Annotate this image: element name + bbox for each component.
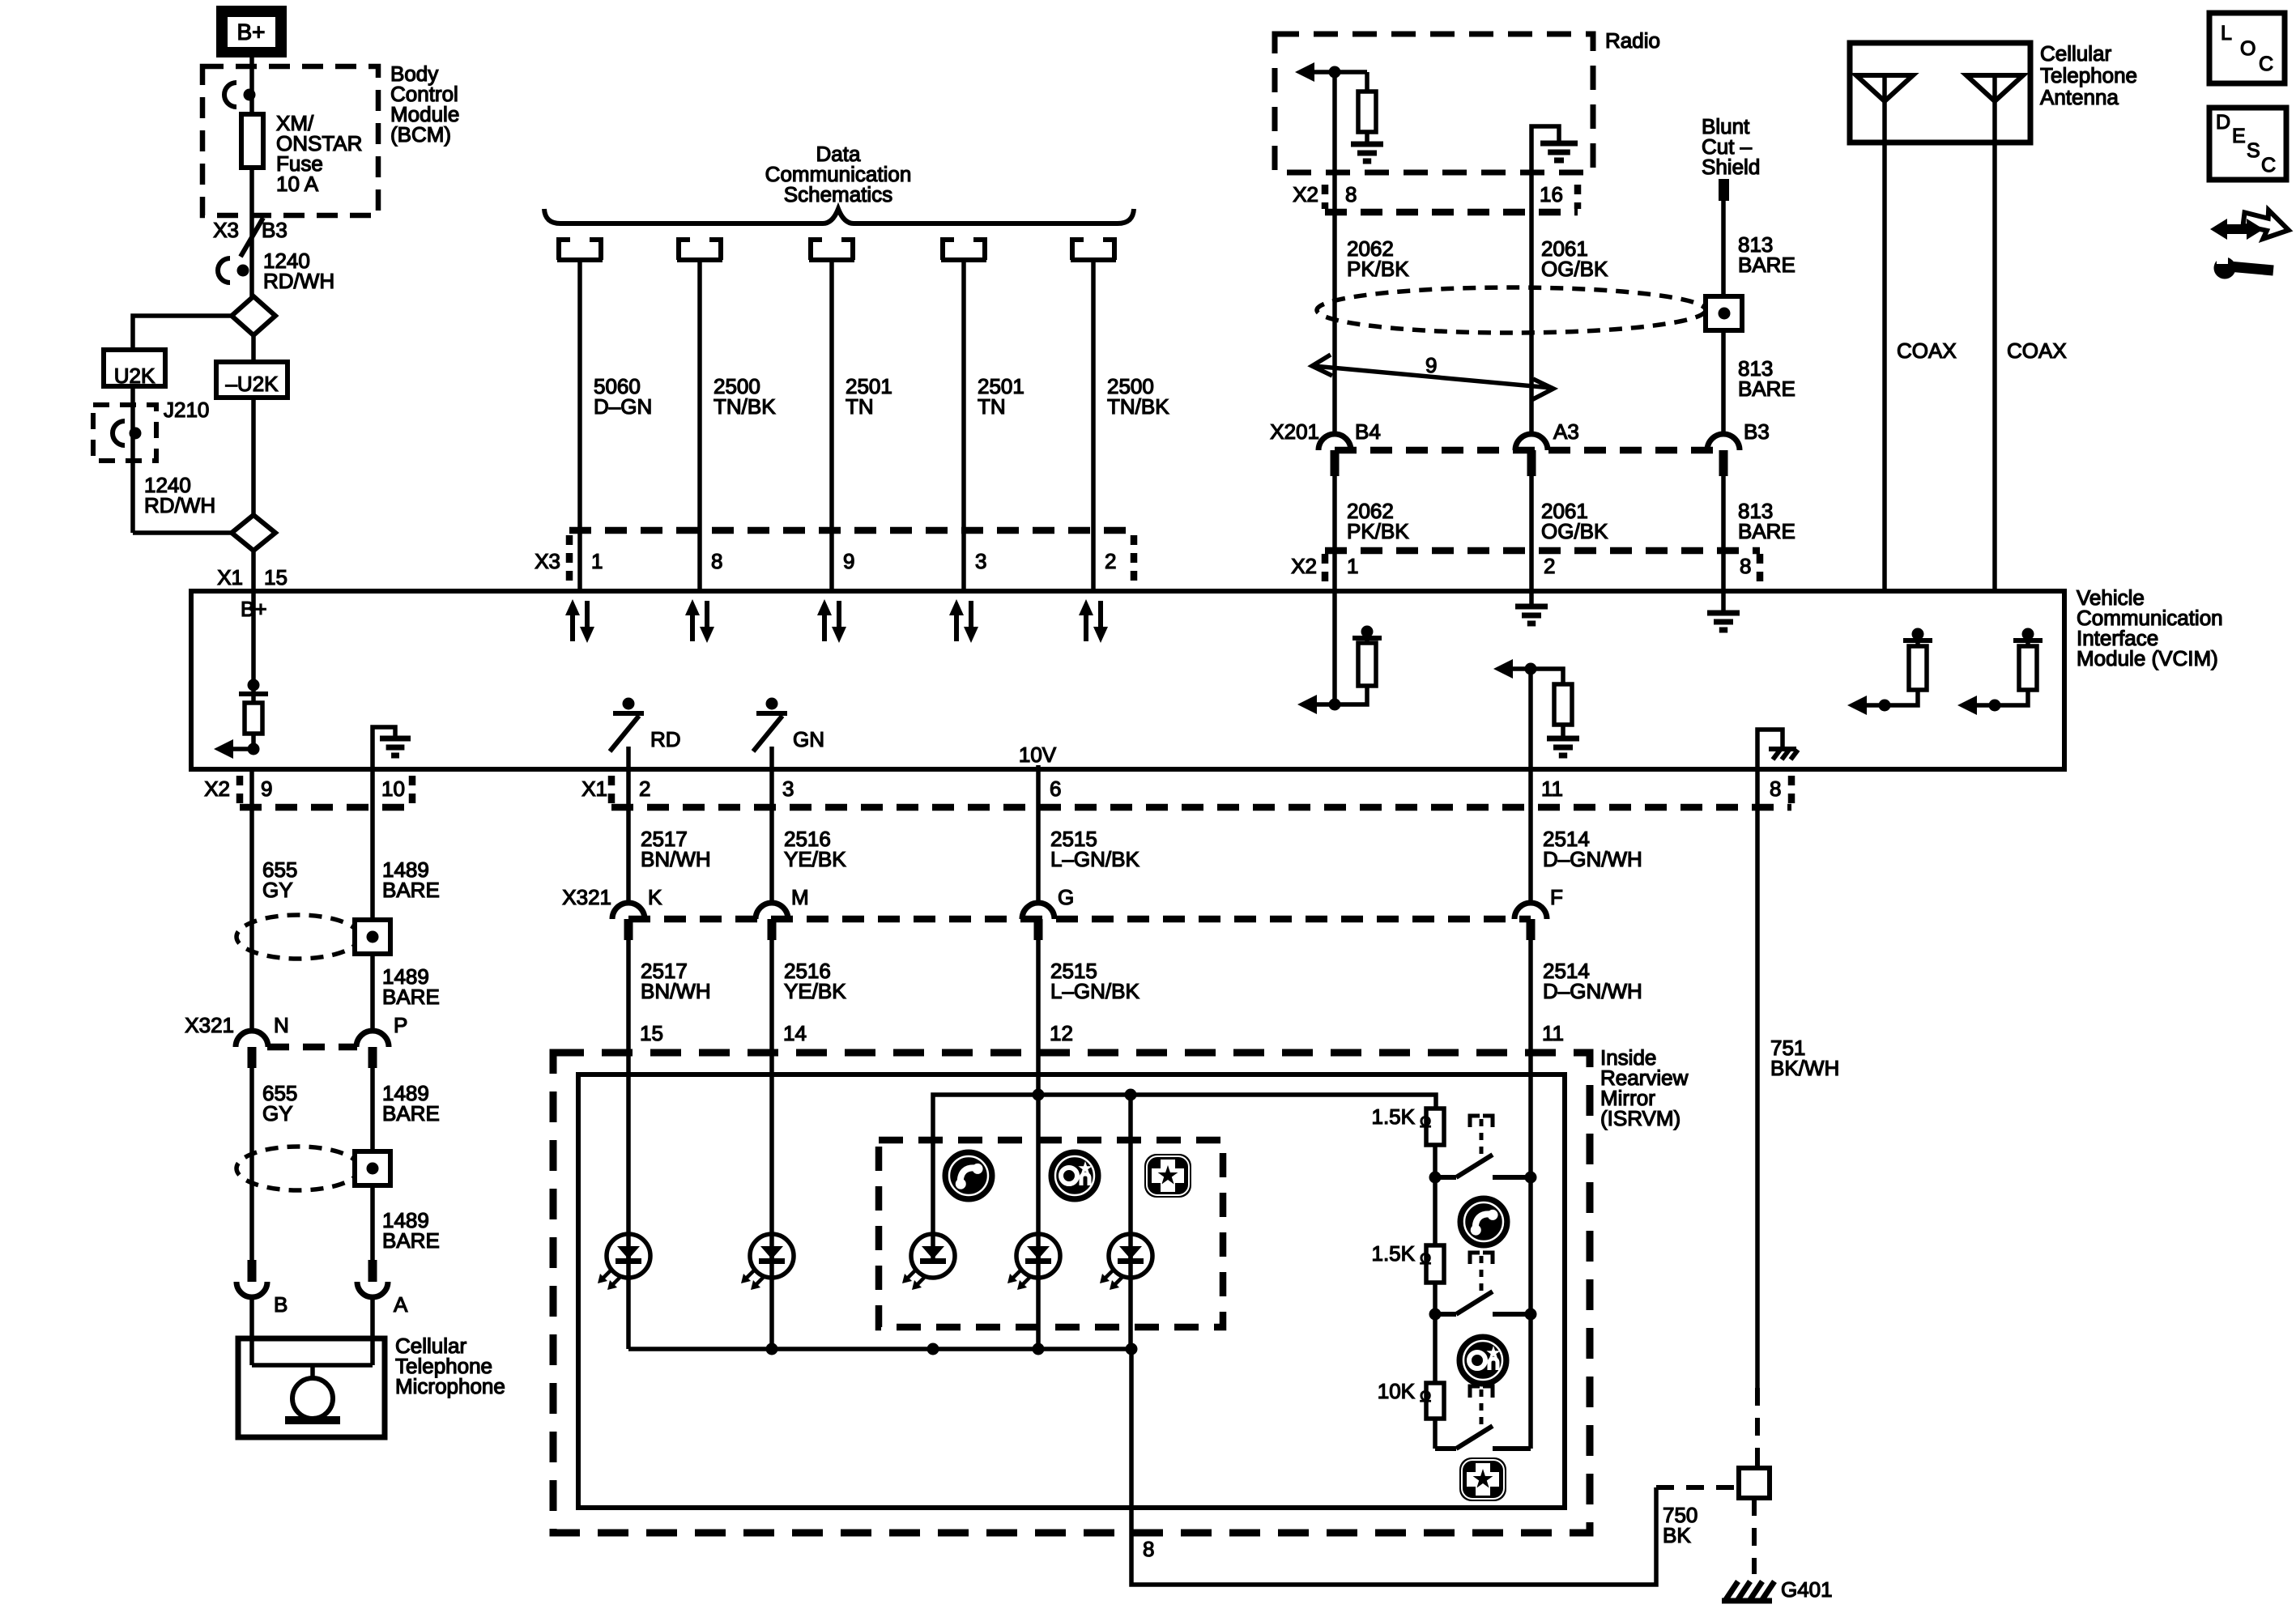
ISRVM buttons dashed box: [879, 1140, 1223, 1327]
svg-text:B: B: [274, 1292, 288, 1317]
svg-text:J210: J210: [164, 398, 209, 422]
svg-text:GN: GN: [793, 727, 824, 751]
bus junction dot emergency branch: [1125, 1089, 1137, 1101]
wire 813 BARE X201 to VCIM: [1721, 470, 1726, 591]
ISRVM LED common bus: [628, 1347, 1131, 1351]
svg-text:X3: X3: [535, 549, 560, 573]
shield termination square mic 1: [355, 920, 390, 954]
svg-text:P: P: [394, 1013, 407, 1037]
splice S1 diamond: [232, 296, 275, 335]
connector X2 bottom dashed line: [240, 804, 412, 811]
data link connector bracket 5: [1072, 237, 1084, 242]
BCM dashed box: [202, 66, 378, 215]
bidirectional serial data arrows 2: [690, 612, 695, 641]
wire circuit 2500 TN/BK: [1091, 260, 1096, 591]
emergency button icon column: [1459, 1457, 1506, 1501]
wire U2K to J210 to splice S2: [130, 386, 135, 533]
svg-text:BN/WH: BN/WH: [641, 979, 711, 1003]
LED indicator 5: [1109, 1234, 1152, 1278]
connector X201 dashed line: [1335, 447, 1723, 454]
G401 splice square: [1739, 1468, 1770, 1498]
svg-text:BARE: BARE: [1738, 253, 1795, 277]
svg-text:Ω: Ω: [1420, 1114, 1431, 1131]
shield ellipse radio: [1317, 287, 1706, 333]
svg-text:X1: X1: [581, 777, 607, 801]
LED indicator 2: [750, 1234, 794, 1278]
radio internal ground: [1351, 142, 1383, 147]
wire K inside ISRVM: [626, 1074, 631, 1349]
bus junction dot G: [1033, 1089, 1045, 1101]
VCIM internal termination X2-1: [1332, 591, 1337, 704]
svg-text:N: N: [274, 1013, 289, 1037]
svg-text:K: K: [648, 885, 662, 909]
svg-text:BARE: BARE: [1738, 519, 1795, 543]
wire splice S1 to -U2K: [251, 335, 256, 362]
wire splice S2 to VCIM pin X1-15: [251, 551, 256, 591]
data link connector bracket 4: [943, 237, 954, 242]
svg-text:G: G: [1058, 885, 1074, 909]
svg-text:2: 2: [1544, 554, 1555, 578]
svg-text:8: 8: [1740, 554, 1751, 578]
shield ellipse mic 1: [236, 915, 360, 959]
svg-text:D: D: [2216, 111, 2230, 134]
svg-text:M: M: [791, 885, 809, 909]
svg-text:–U2K: –U2K: [225, 372, 279, 396]
Radio dashed box: [1275, 34, 1593, 172]
svg-text:16: 16: [1540, 182, 1563, 206]
wire 2515 L–GN/BK VCIM to X321-G: [1036, 769, 1041, 903]
wire 813 BARE blunt cut to shield: [1721, 201, 1726, 296]
wire ladder segment 3: [1433, 1283, 1438, 1314]
svg-text:8: 8: [1345, 182, 1357, 206]
connector X321 terminal P: [356, 1031, 389, 1047]
svg-text:14: 14: [783, 1021, 807, 1045]
svg-text:X201: X201: [1270, 419, 1319, 444]
in-line connector X3/B3: [241, 218, 263, 257]
mic connector terminal A: [368, 1260, 377, 1282]
svg-text:X321: X321: [562, 885, 611, 909]
svg-text:B4: B4: [1355, 419, 1381, 444]
G401 chassis ground: [1722, 1581, 1774, 1601]
wire 750 BK dashed to G401 splice: [1656, 1485, 1739, 1490]
wire 2061 OG/BK X201 to VCIM: [1529, 470, 1534, 591]
junction dot ladder 2: [1429, 1308, 1442, 1321]
wire B+ to fuse: [249, 57, 254, 114]
svg-text:B3: B3: [262, 218, 288, 242]
splice S2 diamond: [232, 515, 275, 551]
fuse XM/ONSTAR 10A: [241, 114, 263, 168]
shield termination square mic 2: [355, 1151, 390, 1185]
connector X201 terminal B3: [1707, 434, 1740, 450]
VCIM internal 10V supply stub: [1036, 765, 1041, 769]
service info icon arrows and wrench: [2239, 205, 2292, 245]
svg-text:1: 1: [591, 549, 603, 573]
switch emergency: [1435, 1446, 1456, 1451]
svg-text:PK/BK: PK/BK: [1347, 519, 1409, 543]
svg-text:COAX: COAX: [1897, 338, 1957, 363]
svg-text:OG/BK: OG/BK: [1541, 519, 1608, 543]
ISRVM inner module box: [578, 1074, 1565, 1508]
wire emergency LED branch: [1128, 1095, 1133, 1349]
wire 751 BK/WH VCIM pin X1-8 to G401: [1755, 769, 1760, 1388]
radio internal resistor: [1365, 72, 1370, 91]
radio internal arrow out: [1314, 70, 1367, 74]
svg-text:OG/BK: OG/BK: [1541, 257, 1608, 281]
svg-text:2: 2: [1105, 549, 1116, 573]
emergency button icon: [1144, 1154, 1191, 1198]
svg-text:X1: X1: [217, 565, 243, 589]
antenna symbol 1: [1856, 75, 1913, 101]
wire 2516 YE/BK X321 to ISRVM pin 14: [769, 938, 774, 1074]
mic connector terminal B: [248, 1260, 257, 1282]
shield ellipse mic 2: [236, 1147, 360, 1190]
connector X2 radio dashed line: [1325, 209, 1578, 216]
wire 2061 OG/BK radio to X201: [1529, 212, 1534, 434]
svg-text:BK/WH: BK/WH: [1770, 1056, 1839, 1080]
svg-text:BARE: BARE: [382, 985, 440, 1009]
svg-text:YE/BK: YE/BK: [784, 979, 846, 1003]
svg-text:2: 2: [639, 777, 650, 801]
wire ladder segment 1: [1433, 1145, 1438, 1177]
data link connector bracket 3: [811, 237, 822, 242]
svg-text:10 A: 10 A: [276, 172, 319, 196]
svg-text:GY: GY: [262, 1101, 293, 1126]
phone button icon column: [1459, 1198, 1508, 1246]
svg-text:9: 9: [261, 777, 272, 801]
svg-text:D–GN/WH: D–GN/WH: [1543, 847, 1642, 871]
svg-text:A: A: [394, 1292, 408, 1317]
VCIM internal coax termination 1: [1879, 700, 1891, 712]
-U2K DTC box: [216, 362, 288, 398]
svg-text:12: 12: [1050, 1021, 1073, 1045]
wire circuit 2501 TN: [829, 260, 834, 591]
switch OnStar: [1435, 1312, 1456, 1317]
wire circuit 2500 TN/BK: [697, 260, 702, 591]
wire 2516 YE/BK VCIM to X321-M: [769, 769, 774, 903]
connector X321 terminal M: [756, 903, 788, 919]
svg-text:9: 9: [843, 549, 854, 573]
svg-text:A3: A3: [1553, 419, 1579, 444]
svg-text:3: 3: [782, 777, 794, 801]
blunt cut terminal: [1719, 179, 1729, 201]
switch phone actuator link: [1470, 1116, 1480, 1127]
VCIM internal termination pin X1-11: [1528, 669, 1533, 769]
svg-text:L–GN/BK: L–GN/BK: [1050, 979, 1139, 1003]
connector X3 dashed line: [569, 527, 1134, 534]
svg-text:G401: G401: [1781, 1577, 1833, 1602]
svg-text:D–GN: D–GN: [594, 394, 652, 419]
VCIM internal chassis ground pin X1-8: [1757, 730, 1783, 769]
phone button icon: [944, 1151, 993, 1200]
svg-text:15: 15: [264, 565, 288, 589]
svg-text:X3: X3: [213, 218, 239, 242]
svg-text:F: F: [1550, 885, 1563, 909]
svg-text:BK: BK: [1663, 1523, 1691, 1547]
connector X201 terminal A3: [1515, 434, 1548, 450]
data link connector bracket 1: [559, 237, 570, 242]
wire circuit 2501 TN: [961, 260, 966, 591]
wire fuse to X3-B3: [249, 168, 254, 298]
connector X201 terminal B4: [1318, 434, 1351, 450]
power feed B+ box: [216, 6, 287, 57]
bidirectional serial data arrows 4: [954, 612, 959, 641]
wire dashed splice to G401 ground: [1752, 1498, 1757, 1574]
wire G inside ISRVM: [1036, 1074, 1041, 1349]
wire ladder segment 5: [1433, 1419, 1438, 1449]
svg-text:U2K: U2K: [114, 364, 155, 388]
svg-text:S: S: [2247, 139, 2260, 162]
wire 1489 BARE shield to X321-P: [370, 954, 375, 1032]
wire 2515 L–GN/BK X321 to ISRVM pin 12: [1036, 938, 1041, 1074]
svg-text:TN: TN: [846, 394, 874, 419]
junction dot radio: [1329, 66, 1341, 79]
svg-text:Ω: Ω: [1420, 1389, 1431, 1406]
svg-text:8: 8: [711, 549, 722, 573]
LED indicator 3: [911, 1234, 955, 1278]
svg-text:Microphone: Microphone: [395, 1374, 505, 1398]
wire 1489 BARE shield to mic: [370, 1185, 375, 1260]
wire terminal A to mic box: [370, 1297, 375, 1338]
svg-text:L: L: [2221, 22, 2232, 45]
OnStar button icon column: [1459, 1336, 1507, 1385]
svg-text:BARE: BARE: [382, 1101, 440, 1126]
svg-text:BN/WH: BN/WH: [641, 847, 711, 871]
svg-text:X2: X2: [1293, 182, 1318, 206]
connector X321 terminal G: [1022, 903, 1054, 919]
svg-text:C: C: [2261, 154, 2276, 177]
VCIM module box: [191, 591, 2064, 769]
VCIM internal switch GN: [766, 698, 778, 710]
twisted pair arrow 9: [1314, 366, 1552, 388]
svg-text:10K: 10K: [1378, 1379, 1416, 1403]
ISRVM dashed box: [553, 1053, 1590, 1533]
switch phone: [1435, 1175, 1456, 1180]
svg-text:TN: TN: [978, 394, 1006, 419]
wire 2062 PK/BK X201 to VCIM: [1332, 470, 1337, 591]
resistor 1.5K second: [1426, 1245, 1444, 1283]
svg-text:RD: RD: [650, 727, 681, 751]
U2K DTC box: [104, 350, 165, 386]
bidirectional serial data arrows 3: [822, 612, 827, 641]
svg-text:B+: B+: [236, 19, 265, 45]
svg-text:11: 11: [1542, 1021, 1564, 1045]
svg-text:PK/BK: PK/BK: [1347, 257, 1409, 281]
svg-text:TN/BK: TN/BK: [1107, 394, 1169, 419]
svg-text:GY: GY: [262, 878, 293, 902]
svg-text:Ω: Ω: [1420, 1251, 1431, 1268]
svg-text:X2: X2: [204, 777, 230, 801]
bidirectional serial data arrows 1: [570, 612, 575, 641]
svg-text:8: 8: [1770, 777, 1781, 801]
svg-text:15: 15: [640, 1021, 663, 1045]
antenna symbol 2: [1966, 75, 2023, 101]
svg-text:10V: 10V: [1019, 743, 1057, 767]
wire 2514 D–GN/WH VCIM to X321-F: [1528, 769, 1533, 903]
VCIM internal ground pin X2-8: [1721, 591, 1726, 612]
data link connector bracket 2: [679, 237, 690, 242]
svg-text:L–GN/BK: L–GN/BK: [1050, 847, 1139, 871]
shield termination square radio: [1706, 296, 1742, 330]
connector X321 terminal K: [612, 903, 645, 919]
connector stub inside BCM: [224, 83, 236, 107]
VCIM internal ground pin X2-10: [373, 727, 395, 769]
LOC reference box: [2209, 13, 2285, 83]
J210 connector dashed box: [93, 405, 156, 461]
LED indicator 4: [1016, 1234, 1060, 1278]
VCIM internal B+ termination: [251, 591, 256, 749]
wire M inside ISRVM: [769, 1074, 774, 1349]
radio internal ground 2: [1540, 141, 1578, 147]
svg-text:6: 6: [1050, 777, 1061, 801]
wire 813 BARE shield to X201: [1721, 330, 1726, 434]
svg-text:YE/BK: YE/BK: [784, 847, 846, 871]
connector X321 terminal N: [236, 1031, 268, 1047]
connector X321 upper dashed line: [267, 1044, 357, 1051]
VCIM internal coax termination 2: [1989, 700, 2001, 712]
svg-text:Radio: Radio: [1605, 28, 1660, 53]
svg-text:3: 3: [975, 549, 986, 573]
svg-text:10: 10: [381, 777, 405, 801]
LED indicator 1: [607, 1234, 650, 1278]
svg-text:RD/WH: RD/WH: [263, 269, 334, 293]
svg-text:TN/BK: TN/BK: [714, 394, 776, 419]
VCIM internal ground pin X2-2: [1529, 591, 1534, 606]
svg-text:9: 9: [1425, 353, 1437, 377]
svg-text:E: E: [2232, 125, 2246, 147]
resistor 10K: [1426, 1383, 1444, 1419]
svg-text:Shield: Shield: [1702, 155, 1760, 179]
svg-text:Antenna: Antenna: [2040, 85, 2119, 109]
connector X1 bottom dashed line: [611, 804, 1791, 811]
ISRVM 10V bus: [933, 1095, 1436, 1256]
wire 2517 BN/WH X321 to ISRVM pin 15: [626, 938, 631, 1074]
svg-text:D–GN/WH: D–GN/WH: [1543, 979, 1642, 1003]
svg-text:Cellular: Cellular: [2040, 41, 2111, 66]
wire 2517 BN/WH VCIM to X321-K: [626, 769, 631, 903]
wire 11 inside ISRVM: [1528, 1177, 1533, 1449]
Cellular Telephone Antenna box: [1850, 43, 2030, 143]
svg-text:8: 8: [1143, 1537, 1154, 1561]
connector stub J210: [113, 421, 125, 445]
svg-text:B3: B3: [1744, 419, 1770, 444]
wire 2514 D–GN/WH X321 to ISRVM pin 11: [1528, 938, 1533, 1177]
wire ladder segment 4: [1433, 1314, 1438, 1383]
OnStar button icon: [1050, 1151, 1099, 1200]
svg-text:BARE: BARE: [382, 1228, 440, 1253]
radio pin16 internal wire: [1531, 126, 1559, 212]
svg-text:1: 1: [1347, 554, 1358, 578]
wire 655 GY pin9 to X321-N: [249, 769, 254, 1032]
svg-text:COAX: COAX: [2007, 338, 2067, 363]
svg-text:O: O: [2240, 37, 2256, 60]
svg-text:BARE: BARE: [1738, 377, 1795, 401]
wire 1489 BARE X321-P to shield 2: [370, 1066, 375, 1152]
connector X321 lower dashed line: [628, 916, 1531, 923]
wire 2062 PK/BK radio to X201: [1332, 72, 1337, 434]
DESC reference box: [2209, 108, 2286, 180]
wire 655 GY X321-N to mic: [249, 1066, 254, 1260]
microphone symbol: [249, 1338, 254, 1365]
connector X321 terminal F: [1514, 903, 1547, 919]
svg-text:Module (VCIM): Module (VCIM): [2077, 646, 2218, 670]
wire ladder segment 2: [1433, 1177, 1438, 1245]
wire -U2K to splice S2: [251, 398, 256, 515]
wire splice to U2K: [133, 316, 232, 350]
bidirectional serial data arrows 5: [1084, 612, 1088, 641]
switch emergency actuator link: [1470, 1386, 1480, 1398]
wire 1489 BARE pin10 to shield: [370, 769, 375, 921]
connector X2 VCIM dashed line: [1325, 547, 1760, 555]
resistor 1.5K first: [1426, 1108, 1444, 1145]
svg-text:X2: X2: [1291, 554, 1317, 578]
svg-text:Telephone: Telephone: [2040, 63, 2137, 87]
VCIM internal switch RD: [623, 698, 635, 710]
svg-text:Schematics: Schematics: [784, 182, 892, 206]
svg-text:BARE: BARE: [382, 878, 440, 902]
svg-text:1.5K: 1.5K: [1372, 1241, 1416, 1266]
svg-text:(ISRVM): (ISRVM): [1600, 1106, 1680, 1130]
wire 750 BK ISRVM pin 8: [1131, 1349, 1656, 1585]
svg-text:RD/WH: RD/WH: [144, 493, 215, 517]
svg-text:X321: X321: [185, 1013, 234, 1037]
brace Data Communication Schematics: [544, 209, 1134, 223]
wire circuit 5060 D–GN: [577, 260, 582, 591]
junction dot ladder 1: [1429, 1172, 1442, 1184]
svg-text:11: 11: [1541, 777, 1563, 801]
svg-text:(BCM): (BCM): [390, 122, 451, 147]
svg-text:C: C: [2259, 53, 2273, 75]
wire terminal B to mic box: [249, 1297, 254, 1338]
svg-text:1.5K: 1.5K: [1372, 1104, 1416, 1129]
switch OnStar actuator link: [1470, 1253, 1480, 1264]
Cellular Telephone Microphone box: [238, 1338, 385, 1437]
